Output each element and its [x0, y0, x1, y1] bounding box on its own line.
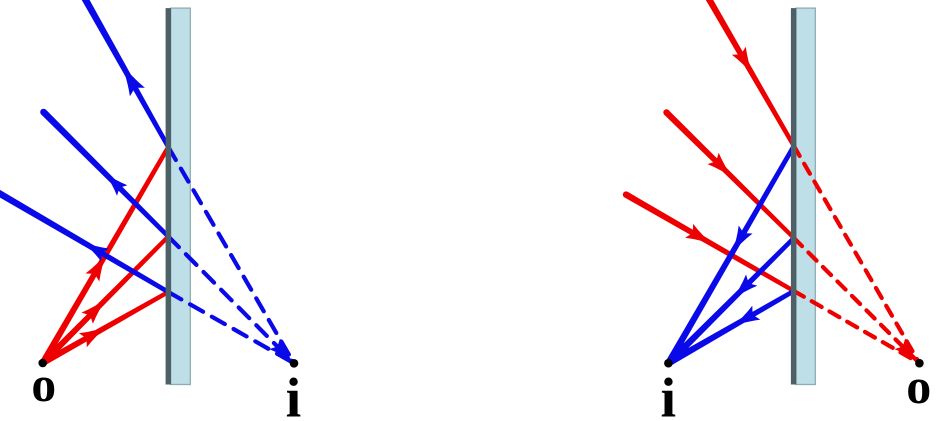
arrowhead on incident ray 3 (left) [79, 327, 107, 348]
virtual ray extension 1 to image i (left, blue dashed) [168, 147, 294, 363]
arrowhead on reflected ray 1 (left) [121, 63, 145, 96]
arrowhead on reflected ray 2 (right) [732, 275, 757, 300]
incident converging ray 3 (right, red solid) [624, 192, 795, 293]
round cap at end of reflected ray 2 (left) [40, 109, 47, 116]
reflected ray 1 converging to image i (right, blue solid) [666, 145, 796, 365]
virtual object point o (right) [915, 359, 924, 368]
virtual ray extension 3 to image i (left, blue dashed) [168, 292, 294, 363]
round cap at end of incident ray 2 (right) [663, 109, 669, 115]
arrowhead on reflected ray 1 (right) [732, 226, 753, 254]
arrowhead on incident ray 2 (left) [82, 298, 107, 324]
arrowhead on incident ray 3 (right) [685, 224, 713, 245]
arrowhead on incident ray 1 (right) [732, 47, 753, 75]
arrowhead on incident ray 2 (right) [708, 153, 734, 178]
arrowhead on incident ray 1 (left) [86, 253, 107, 281]
mirror glass slab (right) [796, 8, 815, 384]
virtual ray extension 2 to object o (right, red dashed) [794, 238, 920, 363]
virtual ray extension 3 to object o (right, red dashed) [794, 291, 920, 363]
virtual ray extension 2 to image i (left, blue dashed) [168, 237, 294, 364]
arrowhead on reflected ray 3 (left) [83, 242, 109, 262]
image point i (right) [664, 359, 673, 368]
virtual ray extension 1 to object o (right, red dashed) [794, 146, 920, 363]
arrowhead on reflected ray 3 (right) [732, 306, 760, 327]
incident ray 1 from object o (left, red solid) [40, 146, 170, 365]
svg-text:o: o [906, 358, 931, 414]
reflected ray 3 (left, blue solid) [0, 189, 169, 294]
reflected ray 2 converging to image i (right, blue solid) [666, 236, 796, 365]
reflected ray 2 (left, blue solid) [41, 110, 170, 239]
object point o (left) [38, 359, 47, 368]
reflected ray 3 converging to image i (right, blue solid) [667, 289, 795, 366]
incident converging ray 1 (right, red solid) [705, 0, 796, 147]
arrowhead on reflected ray 2 (left) [105, 173, 128, 196]
svg-text:o: o [31, 357, 56, 412]
mirror glass slab (left) [171, 8, 191, 384]
svg-text:i: i [661, 368, 677, 421]
svg-text:i: i [286, 368, 302, 421]
mirror silvered back stripe (left) [166, 8, 171, 384]
round cap at end of incident ray 3 (right) [623, 191, 629, 197]
arrowhead at virtual object point o (right, on middle dashed ray) [895, 339, 919, 363]
reflected ray 1 (left, blue solid) [81, 0, 170, 148]
image point i (left) [290, 359, 299, 368]
arrowhead at image point i (left, on middle dashed ray) [269, 339, 293, 363]
incident ray 3 from object o (left, red solid) [41, 290, 169, 366]
mirror silvered back stripe (right) [791, 8, 796, 384]
arrowhead at image point i (right, on middle reflected ray) [670, 339, 694, 363]
incident converging ray 2 (right, red solid) [664, 110, 795, 239]
incident ray 2 from object o (left, red solid) [40, 235, 169, 365]
